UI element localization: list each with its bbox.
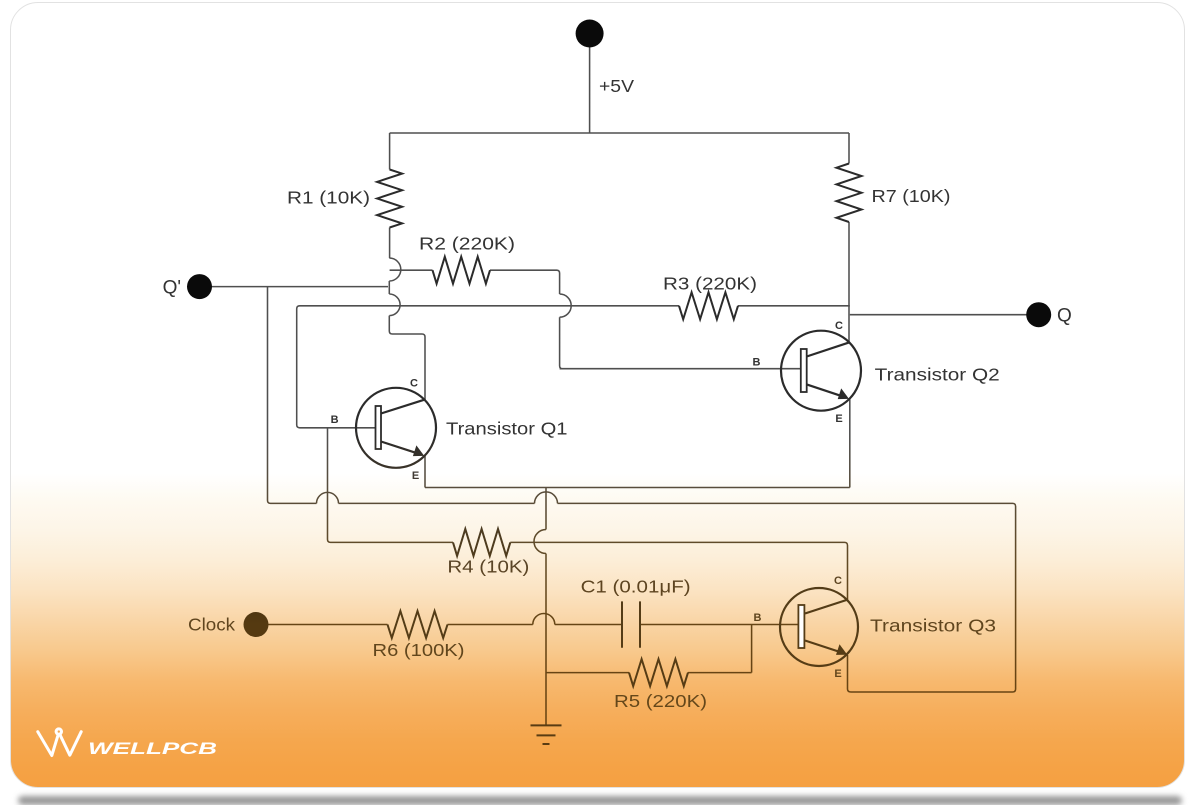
svg-text:Clock: Clock [188, 615, 235, 635]
svg-text:B: B [331, 414, 339, 426]
svg-text:C: C [834, 575, 842, 587]
svg-text:R3 (220K): R3 (220K) [663, 274, 757, 294]
svg-text:R6 (100K): R6 (100K) [373, 640, 465, 660]
svg-text:C: C [410, 378, 418, 390]
svg-text:R5 (220K): R5 (220K) [614, 691, 707, 711]
svg-text:E: E [834, 668, 841, 680]
svg-text:E: E [835, 413, 842, 425]
svg-text:Transistor Q3: Transistor Q3 [870, 616, 996, 636]
svg-text:R2 (220K): R2 (220K) [419, 234, 515, 254]
svg-text:WELLPCB: WELLPCB [88, 739, 217, 758]
svg-text:Q': Q' [163, 278, 181, 299]
svg-text:B: B [753, 357, 761, 369]
svg-text:Transistor Q1: Transistor Q1 [446, 419, 568, 439]
svg-text:C1 (0.01μF): C1 (0.01μF) [581, 577, 691, 597]
svg-text:E: E [412, 470, 419, 482]
svg-text:+5V: +5V [599, 76, 634, 96]
svg-text:Q: Q [1057, 306, 1072, 327]
svg-text:R1 (10K): R1 (10K) [287, 188, 370, 208]
svg-text:C: C [835, 320, 843, 332]
svg-text:Transistor Q2: Transistor Q2 [875, 365, 1000, 385]
svg-text:R4 (10K): R4 (10K) [447, 557, 529, 577]
svg-text:R7 (10K): R7 (10K) [872, 186, 951, 206]
svg-text:B: B [754, 612, 762, 624]
